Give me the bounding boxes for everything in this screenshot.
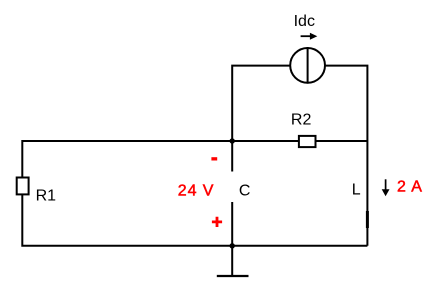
wire: current source branch (left riser, top rail, right drop) xyxy=(232,66,367,246)
wire: left loop (top-left horizontal, left vertical, bottom horizontal) xyxy=(22,141,367,246)
current source U1 circle xyxy=(290,48,325,83)
junction node A (top) xyxy=(230,138,235,143)
wire: R2 branch horizontal xyxy=(232,140,367,142)
svg-text:R1: R1 xyxy=(36,187,57,204)
svg-text:2 A: 2 A xyxy=(397,179,423,196)
svg-text:R2: R2 xyxy=(291,112,312,129)
svg-text:C: C xyxy=(239,183,251,200)
polarity minus xyxy=(211,157,217,160)
junction node B (bottom) xyxy=(230,243,235,248)
svg-text:L: L xyxy=(352,182,361,199)
capacitor C top lead xyxy=(231,141,233,172)
arrow for 2 A xyxy=(385,179,387,191)
capacitor C bottom lead xyxy=(231,202,233,246)
svg-text:24 V: 24 V xyxy=(178,183,215,200)
svg-text:Idc: Idc xyxy=(294,13,315,30)
resistor R2 xyxy=(299,136,316,147)
arrow for Idc xyxy=(301,35,311,37)
inductor L body (slightly thicker wire segment) xyxy=(366,211,369,228)
ground xyxy=(231,246,233,276)
resistor R1 xyxy=(17,178,29,195)
polarity plus xyxy=(212,217,222,227)
current source U1 internal bar xyxy=(307,47,309,83)
